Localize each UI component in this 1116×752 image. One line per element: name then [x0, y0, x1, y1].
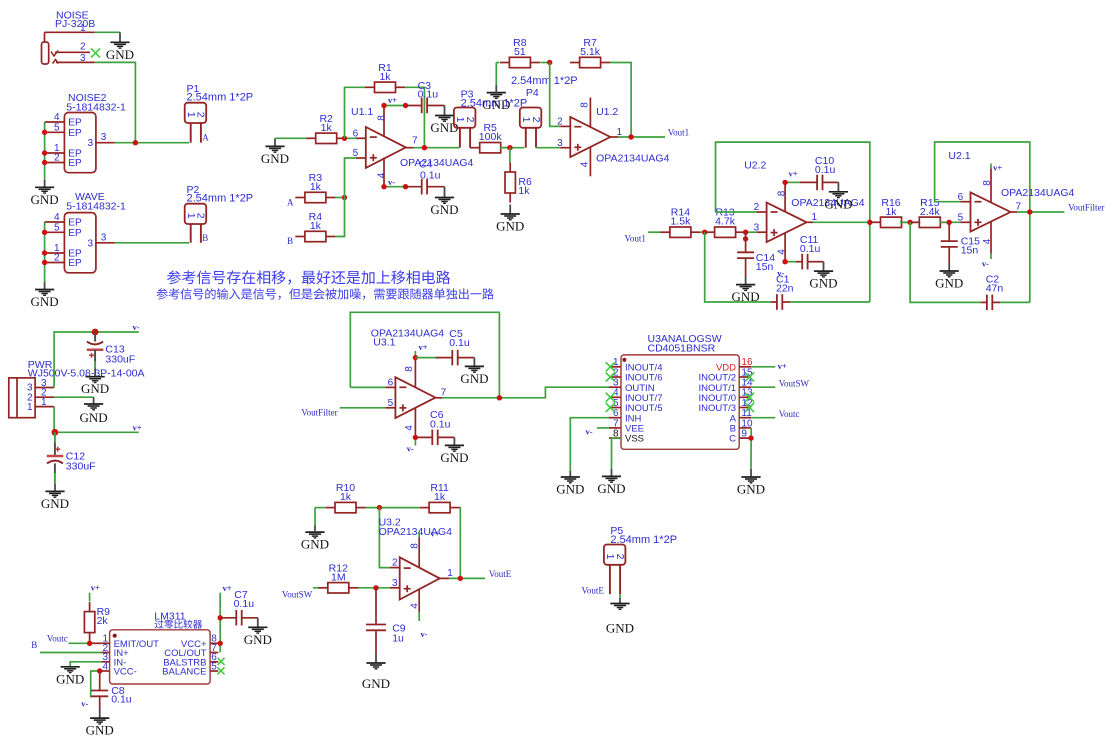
- ground U3 VSS: [597, 469, 625, 496]
- svg-text:1k: 1k: [310, 181, 322, 193]
- svg-text:5: 5: [353, 148, 359, 159]
- wire R1 to output node: [405, 87, 425, 147]
- junction R5/R6/P4: [507, 145, 512, 150]
- svg-text:v-: v-: [407, 443, 414, 453]
- svg-text:2k: 2k: [97, 615, 109, 627]
- svg-text:GND: GND: [244, 632, 272, 647]
- svg-text:2: 2: [195, 112, 207, 118]
- no-connect X U3 pin2: [606, 372, 615, 381]
- wire U1.1 output: [414, 147, 460, 149]
- wire junction down to U1.2 pin2: [550, 63, 561, 127]
- svg-text:4: 4: [777, 249, 788, 255]
- svg-text:v+: v+: [419, 342, 428, 352]
- svg-text:Voutc: Voutc: [779, 409, 800, 419]
- wire U3 VSS to GND: [612, 438, 622, 469]
- junction R10/R11: [377, 505, 382, 510]
- net stub v+ U1.1: [384, 95, 406, 106]
- op-amp U1.1 OPA2134UAG4: [351, 106, 474, 187]
- junction R16/R15/C2: [907, 220, 912, 225]
- svg-text:Voutc: Voutc: [47, 633, 68, 643]
- svg-text:EP: EP: [68, 158, 82, 169]
- net stub v+ U2.1: [991, 163, 1002, 173]
- connector NOISE PJ-320B audio jack: [42, 10, 96, 65]
- svg-text:OPA2134UAG4: OPA2134UAG4: [400, 157, 474, 169]
- svg-text:4.7k: 4.7k: [715, 216, 736, 228]
- svg-text:2: 2: [530, 117, 542, 123]
- svg-text:47n: 47n: [986, 283, 1004, 295]
- svg-text:Vout1: Vout1: [625, 234, 646, 244]
- svg-text:15n: 15n: [961, 245, 979, 257]
- wire P4 to U1.2 pin3: [536, 147, 560, 149]
- net stub v+ U3.2: [419, 529, 440, 539]
- net label A at P1: [202, 133, 209, 143]
- net label v- rail: [133, 322, 140, 332]
- junction R14/R13/C1: [702, 230, 707, 235]
- wire VoutFilter to U3.1 pin5: [340, 407, 386, 409]
- svg-text:22n: 22n: [776, 283, 794, 295]
- wire v+ down to LM311 pin8: [219, 593, 221, 653]
- svg-text:VoutFilter: VoutFilter: [1068, 202, 1104, 212]
- svg-text:5-1814832-1: 5-1814832-1: [66, 200, 126, 212]
- wire U3.2 output VoutE: [449, 577, 485, 579]
- capacitor C9 1u: [366, 588, 406, 654]
- IC U3 ANALOGSW CD4051BNSR: [609, 333, 753, 449]
- svg-text:U1.1: U1.1: [351, 106, 373, 118]
- svg-text:1: 1: [447, 568, 453, 579]
- svg-text:1k: 1k: [379, 71, 391, 83]
- wire U2.1 feedback frame: [935, 142, 1030, 302]
- svg-text:3: 3: [392, 578, 398, 589]
- wire LM311 pin4 to v-: [91, 671, 100, 698]
- svg-text:GND: GND: [56, 671, 84, 686]
- net stub v+ U2.2: [785, 169, 800, 183]
- net label v+ at LM311 pin8: [223, 583, 232, 593]
- svg-text:GND: GND: [556, 482, 584, 497]
- resistor R2 1k: [306, 113, 346, 144]
- svg-text:v+: v+: [91, 582, 100, 592]
- junction NOISE2 pin2: [42, 160, 47, 165]
- wire U3 pins B,C to GND: [750, 428, 752, 469]
- svg-text:330uF: 330uF: [66, 461, 96, 473]
- wire jack pin3 to node A net: [95, 62, 136, 142]
- wire R5 to node: [500, 147, 524, 149]
- wire Voutc to LM311 pin1: [69, 642, 102, 644]
- svg-text:2.54mm 1*2P: 2.54mm 1*2P: [187, 193, 254, 205]
- ground C3: [430, 106, 458, 136]
- wire GND to R2: [275, 137, 306, 139]
- svg-text:v-: v-: [133, 322, 140, 332]
- junction R15/pin5/C15: [947, 220, 952, 225]
- net stub v- at VEE: [586, 427, 610, 437]
- svg-text:5: 5: [958, 212, 964, 223]
- svg-text:VoutE: VoutE: [489, 569, 512, 579]
- net label v- at C8: [81, 699, 88, 709]
- wire R10 to R11: [366, 507, 420, 509]
- junction WAVE pin1: [42, 250, 47, 255]
- svg-text:EP: EP: [68, 258, 82, 269]
- svg-text:v-: v-: [586, 427, 593, 437]
- svg-text:1k: 1k: [885, 206, 897, 218]
- capacitor C4 0.1u: [406, 159, 445, 195]
- capacitor C15 15n: [941, 222, 980, 263]
- svg-text:GND: GND: [460, 371, 488, 386]
- junction C14 branch: [743, 236, 748, 241]
- svg-text:7: 7: [412, 136, 418, 147]
- resistor R11 1k: [420, 482, 460, 513]
- capacitor C14 15n: [737, 232, 775, 277]
- wire U3 VDD to v+: [751, 366, 775, 368]
- junction U2.1 output/frame: [1027, 209, 1032, 214]
- ground C13: [81, 369, 109, 397]
- net label VoutSW at U3: [779, 378, 810, 388]
- svg-text:0.1u: 0.1u: [800, 243, 821, 255]
- wire WAVE pin3 to P2: [115, 242, 189, 244]
- comment text line 1: [167, 270, 450, 284]
- ground C14: [732, 277, 760, 304]
- wire R2 to U1.1 pin6: [345, 137, 356, 139]
- svg-text:GND: GND: [824, 196, 852, 211]
- wire R11 to output node: [459, 508, 462, 579]
- junction LM311 pin4/C8: [97, 668, 102, 673]
- wire PWR pin1 to v+ rail: [54, 407, 139, 433]
- svg-text:2.54mm 1*2P: 2.54mm 1*2P: [511, 75, 578, 87]
- resistor R8 51: [500, 37, 540, 68]
- capacitor C13 330uF polarized: [87, 332, 135, 369]
- svg-text:2: 2: [557, 117, 563, 128]
- junction U3 pin9: [748, 435, 753, 440]
- svg-text:1u: 1u: [392, 632, 404, 644]
- ground P5: [606, 598, 634, 636]
- capacitor C7 0.1u: [220, 589, 258, 626]
- wire C2 to frame right: [1000, 301, 1030, 303]
- junction v- node U1.1: [403, 184, 408, 189]
- svg-text:1k: 1k: [340, 491, 352, 503]
- wire Vout1 to R14: [648, 231, 661, 233]
- wire R13 to U2.2 pin3: [745, 231, 757, 233]
- wire jack pin1 to GND: [95, 31, 121, 33]
- svg-text:4: 4: [404, 425, 415, 431]
- capacitor C11 0.1u: [796, 234, 824, 269]
- pin1 marker LM311: [113, 634, 117, 638]
- svg-text:GND: GND: [606, 621, 634, 636]
- junction R2/R1: [342, 136, 347, 141]
- connector NOISE2 5-1814832-1: [45, 92, 126, 173]
- svg-text:5: 5: [211, 661, 217, 672]
- ground C7: [244, 618, 272, 647]
- svg-text:4: 4: [377, 172, 388, 178]
- svg-text:8: 8: [377, 115, 388, 121]
- net label A at R3: [287, 197, 294, 207]
- svg-text:3: 3: [101, 132, 107, 143]
- svg-text:GND: GND: [737, 482, 765, 497]
- connector P5 2.54mm 1*2P: [604, 525, 677, 594]
- svg-text:0.1u: 0.1u: [420, 170, 441, 182]
- ground jack GND: [106, 32, 134, 62]
- net label v+ at R9: [91, 582, 100, 592]
- svg-text:8: 8: [404, 366, 415, 372]
- wire R12 to U3.2 pin3: [358, 587, 390, 589]
- junction v+ node U1.1: [403, 103, 408, 108]
- svg-text:GND: GND: [430, 202, 458, 217]
- svg-text:GND: GND: [31, 192, 59, 207]
- net label VoutSW at R12: [282, 589, 313, 599]
- svg-text:CD4051BNSR: CD4051BNSR: [648, 343, 716, 355]
- svg-text:6: 6: [958, 192, 964, 203]
- svg-text:0.1u: 0.1u: [430, 418, 451, 430]
- svg-text:Vout1: Vout1: [668, 127, 689, 137]
- net label Voutc at LM311: [47, 633, 68, 643]
- svg-text:3: 3: [87, 138, 93, 149]
- svg-text:2: 2: [392, 558, 398, 569]
- wire PWR pin3 to v- rail: [35, 332, 139, 388]
- wire R16 to R15: [900, 221, 920, 223]
- junction R9/Voutc: [87, 641, 92, 646]
- svg-text:8: 8: [982, 180, 993, 186]
- junction v- U3.1: [413, 435, 418, 440]
- no-connect X LM311 pin5: [218, 667, 225, 674]
- junction NOISE2 pin1: [42, 150, 47, 155]
- svg-text:GND: GND: [482, 97, 510, 112]
- svg-text:2: 2: [54, 153, 60, 164]
- svg-text:B: B: [202, 233, 208, 243]
- svg-text:2: 2: [195, 213, 207, 219]
- svg-text:1k: 1k: [518, 185, 530, 197]
- wire U2.1 output VoutFilter: [1017, 211, 1064, 213]
- svg-text:1: 1: [41, 397, 47, 408]
- wire WAVE ground bus: [44, 222, 46, 282]
- svg-text:U3.1: U3.1: [373, 336, 395, 348]
- net stub v- U3.1: [407, 437, 416, 453]
- no-connect X U3 pin13: [745, 393, 754, 402]
- svg-text:2: 2: [54, 253, 60, 264]
- ground C8: [86, 708, 114, 738]
- wire U1.2 output Vout1: [618, 136, 665, 138]
- net label B at R4: [287, 236, 293, 246]
- svg-text:7: 7: [441, 387, 447, 398]
- net stub v+ U3.1: [415, 342, 427, 358]
- resistor R6 1k: [505, 148, 532, 203]
- svg-text:VoutE: VoutE: [582, 586, 605, 596]
- svg-text:VoutFilter: VoutFilter: [301, 408, 337, 418]
- svg-text:51: 51: [514, 46, 526, 58]
- net label VoutFilter at U2.1: [1068, 202, 1104, 212]
- resistor R5 100k: [470, 122, 510, 153]
- svg-text:5-1814832-1: 5-1814832-1: [66, 102, 126, 114]
- svg-text:GND: GND: [81, 381, 109, 396]
- capacitor C10 0.1u: [800, 155, 838, 190]
- op-amp U3.1 OPA2134UAG4: [371, 328, 447, 438]
- no-connect X U3 pin15: [745, 372, 754, 381]
- ground at R10: [301, 508, 329, 552]
- junction C7 branch: [218, 615, 223, 620]
- resistor R12 1M: [318, 562, 358, 593]
- svg-text:GND: GND: [41, 496, 69, 511]
- svg-text:5: 5: [388, 398, 394, 409]
- svg-text:3: 3: [754, 222, 760, 233]
- resistor R1 1k: [365, 62, 405, 93]
- wire NOISE2 ground bus: [44, 122, 46, 180]
- wire R8 to junction: [540, 62, 549, 64]
- junction WAVE pin5: [42, 230, 47, 235]
- wire R15 to U2.1 pin5: [939, 221, 960, 223]
- svg-text:P4: P4: [526, 87, 539, 99]
- pin1 marker U3: [622, 358, 626, 362]
- junction v+ U2.2: [782, 180, 787, 185]
- capacitor C8 0.1u: [91, 671, 132, 708]
- svg-text:v-: v-: [81, 699, 88, 709]
- svg-text:v+: v+: [431, 529, 440, 539]
- wire v+ to C5: [415, 357, 435, 359]
- svg-text:GND: GND: [597, 481, 625, 496]
- svg-text:9: 9: [741, 429, 747, 440]
- svg-text:5.1k: 5.1k: [580, 46, 601, 58]
- wire R7 to U1.2 output: [610, 63, 631, 138]
- net label B at P2: [202, 233, 208, 243]
- svg-text:U2.1: U2.1: [948, 150, 970, 162]
- svg-text:4: 4: [982, 238, 993, 244]
- IC LM311 comparator: [102, 611, 219, 685]
- svg-text:1: 1: [27, 402, 33, 413]
- connector P1 2.54mm 1*2P: [185, 83, 253, 143]
- junction R8/R7: [547, 60, 552, 65]
- svg-text:VoutSW: VoutSW: [779, 378, 810, 388]
- wire U3.1 feedback frame: [350, 312, 499, 398]
- wire R9 to Voutc node: [89, 633, 91, 644]
- svg-text:GND: GND: [86, 723, 114, 738]
- svg-text:4: 4: [102, 661, 108, 672]
- comment text line 2: [156, 288, 493, 300]
- wire R1 branch up: [345, 87, 366, 138]
- net stub v- U1.1: [384, 177, 406, 187]
- capacitor C12 330uF polarized: [47, 432, 96, 484]
- junction U2.2 output/frame: [867, 220, 872, 225]
- svg-text:GND: GND: [106, 47, 134, 62]
- svg-text:B: B: [287, 236, 293, 246]
- svg-text:U2.2: U2.2: [744, 160, 766, 172]
- resistor R16 1k: [871, 197, 911, 228]
- net stub v- U2.2: [777, 262, 796, 278]
- svg-text:3: 3: [101, 232, 107, 243]
- capacitor C2 47n: [981, 274, 1004, 311]
- svg-text:BALANCE: BALANCE: [162, 667, 206, 678]
- wire U3 pin A to Voutc: [751, 417, 775, 419]
- no-connect X U3 pin1: [606, 362, 615, 371]
- svg-text:VCC-: VCC-: [114, 667, 137, 678]
- svg-text:VoutSW: VoutSW: [282, 589, 313, 599]
- svg-text:v+: v+: [388, 95, 397, 105]
- svg-text:GND: GND: [935, 276, 963, 291]
- op-amp U1.2 OPA2134UAG4: [557, 98, 669, 177]
- net label v+ at VDD: [778, 361, 787, 371]
- ground at R8: [482, 63, 510, 113]
- svg-text:2: 2: [754, 202, 760, 213]
- svg-text:1k: 1k: [310, 220, 322, 232]
- svg-text:4: 4: [410, 603, 421, 609]
- svg-text:330uF: 330uF: [105, 354, 135, 366]
- ground C12: [41, 484, 69, 511]
- svg-text:v+: v+: [133, 423, 142, 433]
- net label VoutE at P5: [582, 586, 605, 596]
- no-connect X on jack pin 2: [91, 48, 100, 57]
- junction U3.1 output/frame: [497, 395, 502, 400]
- junction node A wire: [133, 140, 138, 145]
- svg-text:GND: GND: [362, 676, 390, 691]
- svg-text:GND: GND: [440, 450, 468, 465]
- resistor R3 1k: [295, 172, 335, 203]
- svg-text:v-: v-: [421, 629, 428, 639]
- svg-text:5: 5: [54, 223, 60, 234]
- wire R14 to R13: [700, 231, 705, 233]
- svg-text:OPA2134UAG4: OPA2134UAG4: [379, 526, 453, 538]
- svg-text:v+: v+: [223, 583, 232, 593]
- junction R12/pin3/C9: [373, 585, 378, 590]
- net label Vout1 at U1.2: [668, 127, 689, 137]
- op-amp U3.2 OPA2134UAG4: [379, 517, 454, 613]
- net label VoutE at U3.2: [489, 569, 512, 579]
- wire U2.2 output: [813, 221, 871, 223]
- resistor R15 2.4k: [910, 197, 950, 228]
- net label B at LM311: [31, 640, 37, 650]
- capacitor C5 0.1u: [436, 328, 475, 365]
- wire R3 to summing node: [335, 197, 345, 199]
- svg-text:v+: v+: [789, 169, 798, 179]
- svg-text:GND: GND: [261, 151, 289, 166]
- no-connect X U3 pin5: [606, 403, 615, 412]
- svg-text:0.1u: 0.1u: [234, 598, 255, 610]
- ground PWR pin2: [80, 397, 108, 425]
- svg-text:8: 8: [777, 190, 788, 196]
- ground LM311 IN-: [56, 667, 84, 687]
- wire NOISE2 pin3 to P1: [115, 142, 189, 144]
- no-connect X U3 pin12: [745, 403, 754, 412]
- svg-text:OPA2134UAG4: OPA2134UAG4: [1001, 187, 1075, 199]
- net label Voutc at U3: [779, 409, 800, 419]
- svg-text:0.1u: 0.1u: [815, 164, 836, 176]
- ground U3 pin B/C: [737, 469, 765, 497]
- resistor R13 4.7k: [705, 207, 745, 238]
- svg-text:1k: 1k: [434, 491, 446, 503]
- svg-text:v+: v+: [993, 163, 1002, 173]
- junction v+ U3.1: [413, 355, 418, 360]
- junction U1.1 output: [422, 145, 427, 150]
- svg-text:3: 3: [80, 53, 86, 64]
- junction NOISE2 pin5: [42, 130, 47, 135]
- svg-text:v-: v-: [777, 268, 784, 278]
- svg-text:v-: v-: [388, 177, 395, 187]
- svg-text:2: 2: [464, 117, 476, 123]
- svg-text:1: 1: [812, 212, 818, 223]
- svg-text:3: 3: [557, 138, 563, 149]
- svg-text:C: C: [729, 434, 736, 445]
- ground R6: [496, 205, 524, 234]
- connector P2 2.54mm 1*2P: [185, 184, 253, 243]
- ground C5: [460, 358, 488, 386]
- svg-text:4: 4: [579, 161, 590, 167]
- resistor R14 1.5k: [660, 207, 700, 238]
- svg-text:15n: 15n: [756, 261, 774, 273]
- svg-text:2: 2: [614, 554, 626, 560]
- svg-text:2.4k: 2.4k: [920, 206, 941, 218]
- wire U3 INOUT/1 to VoutSW: [751, 386, 775, 388]
- junction R13/pin3: [743, 230, 748, 235]
- ground C10: [824, 182, 852, 211]
- ground C9: [362, 654, 390, 691]
- wire LM311 pin3 to GND: [70, 662, 101, 667]
- svg-text:2.54mm 1*2P: 2.54mm 1*2P: [610, 534, 677, 546]
- connector P3 2.54mm 1*2P: [454, 89, 527, 148]
- op-amp U2.1 OPA2134UAG4: [948, 150, 1074, 254]
- net stub v- U3.2: [419, 612, 428, 639]
